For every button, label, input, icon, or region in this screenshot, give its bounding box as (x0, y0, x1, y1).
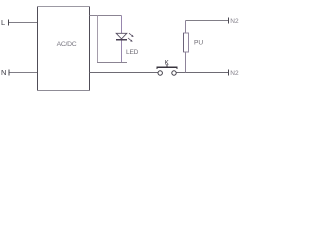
LED emission arrow 2 (128, 38, 133, 42)
LED D1 triangle (116, 33, 127, 39)
resistor PU body (184, 33, 189, 52)
terminal tick bottom-right (228, 70, 230, 76)
svg-text:LED: LED (126, 49, 139, 56)
wire L input to AC/DC box (9, 22, 37, 24)
svg-text:N: N (1, 68, 6, 77)
wire LED loop bottom horizontal (97, 62, 127, 64)
wire LED loop left vertical (97, 16, 99, 63)
svg-text:N2: N2 (230, 70, 239, 77)
svg-text:L: L (1, 18, 5, 27)
wire switch to output terminal (177, 72, 229, 74)
resistor PU body left dark edge (183, 33, 185, 52)
terminal tick top-right (228, 18, 230, 24)
wire LED cathode vertical (121, 41, 123, 63)
switch K left contact circle (158, 71, 162, 75)
svg-text:N2: N2 (230, 18, 239, 25)
pushbutton switch K stem (166, 64, 168, 67)
LED D1 cathode bar (116, 39, 127, 41)
pushbutton switch K bar (157, 66, 178, 68)
switch K right contact circle (172, 71, 176, 75)
wire box output to LED anode (90, 15, 122, 17)
wire resistor top lead (185, 21, 187, 34)
svg-text:AC/DC: AC/DC (57, 41, 77, 48)
svg-text:PU: PU (194, 40, 203, 47)
pushbutton switch K bar end ticks (157, 68, 177, 70)
wire LED anode vertical (121, 16, 123, 34)
wire N input to AC/DC box (10, 72, 38, 74)
wire top-right terminal to resistor (186, 20, 229, 22)
AC/DC converter box U1 (37, 6, 90, 91)
LED emission arrow 1 (129, 33, 134, 37)
terminal tick N (8, 70, 10, 76)
terminal tick L (8, 20, 10, 26)
wire resistor bottom lead to bottom wire (185, 52, 187, 73)
wire box lower output to switch (90, 72, 158, 74)
